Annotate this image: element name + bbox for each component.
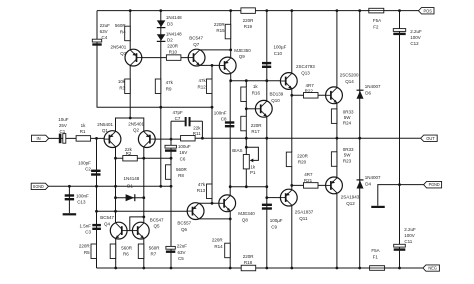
svg-text:C1: C1 (60, 129, 66, 134)
resistor R4 (125, 26, 131, 41)
wire: Q11 base lead row (267, 197, 281, 199)
transistor Q3 (125, 49, 142, 66)
label C3 value (79, 223, 91, 234)
svg-text:Q2: Q2 (133, 128, 140, 133)
svg-text:0R33: 0R33 (343, 109, 354, 114)
fuse F2 (369, 8, 384, 13)
label C9 value (270, 218, 283, 229)
terminal NEG (423, 265, 440, 271)
wire: R16-R17 junction segment (245, 101, 247, 116)
svg-text:1k: 1k (81, 123, 87, 128)
resistor R23 (331, 152, 337, 167)
transistor Q6 (187, 203, 204, 220)
svg-text:BC557: BC557 (177, 221, 191, 226)
svg-text:5W: 5W (344, 115, 352, 120)
svg-text:63V: 63V (100, 29, 108, 34)
wire: Q12 collector to rail (336, 194, 338, 268)
label P1 value (250, 165, 256, 175)
wire: Q14 emitter R24 R23 column to Q12 (336, 104, 338, 178)
svg-text:R23: R23 (343, 158, 352, 163)
label C7 value (173, 110, 184, 121)
resistor R22 (304, 93, 319, 99)
wire: C4 branch from rail down and bootstrap bus to R12 column (97, 11, 212, 108)
svg-text:Q9: Q9 (239, 54, 246, 59)
label R16 value (252, 84, 261, 95)
wire: P1 wiper loop (246, 147, 258, 160)
label Q12 part (341, 195, 360, 206)
terminal OUT (421, 135, 438, 141)
resistor R2 (123, 155, 138, 161)
label C12 value (410, 29, 422, 46)
svg-text:220R: 220R (297, 153, 309, 158)
wire: R12-R13 column (211, 65, 213, 203)
transistor Q1 (104, 131, 121, 148)
svg-text:R24: R24 (343, 121, 352, 126)
svg-text:F5A: F5A (371, 248, 379, 253)
svg-text:220R: 220R (243, 254, 255, 259)
svg-text:22uF: 22uF (177, 244, 188, 249)
label R2 value (125, 147, 133, 156)
svg-text:Q11: Q11 (299, 216, 308, 221)
svg-text:100nF: 100nF (214, 111, 227, 116)
svg-text:220R: 220R (214, 22, 226, 27)
svg-text:D1: D1 (127, 184, 133, 189)
svg-text:C10: C10 (274, 51, 283, 56)
svg-text:C11: C11 (404, 239, 412, 244)
label C11 value (404, 227, 416, 244)
svg-text:Q10: Q10 (271, 98, 280, 103)
transistor Q4 (110, 222, 127, 239)
wire: Q4 emitter to R6 and rail (115, 238, 117, 268)
svg-text:R11: R11 (193, 131, 201, 136)
transistor Q8 (219, 195, 236, 212)
label R7 value (149, 245, 161, 256)
svg-text:R2: R2 (126, 151, 132, 156)
svg-text:P1: P1 (250, 170, 256, 175)
svg-text:C12: C12 (410, 41, 419, 46)
label D2 value (166, 31, 182, 42)
capacitor C9 (262, 204, 272, 206)
svg-text:C9: C9 (271, 224, 277, 229)
transistor Q10 (255, 100, 272, 117)
svg-text:2SA1837: 2SA1837 (295, 209, 314, 214)
resistor R13 (207, 184, 213, 199)
wire: R22 row Q13 emitter to Q14 base (292, 94, 325, 96)
label Q6 part (177, 221, 191, 232)
svg-text:47pF: 47pF (173, 110, 184, 115)
svg-text:47k: 47k (166, 80, 174, 85)
svg-text:R19: R19 (244, 24, 253, 29)
resistor R10 (166, 55, 181, 61)
label C10 value (274, 45, 287, 56)
label R22 value (305, 83, 315, 94)
wire: negative bottom rail (97, 267, 423, 269)
wire: R16 top stub (245, 81, 247, 87)
transistor Q2 (138, 131, 155, 148)
svg-text:D6: D6 (365, 91, 371, 96)
wire: Q9 collector to VAS bus (230, 74, 232, 81)
transistor Q13 (280, 73, 297, 90)
label R18 value (243, 254, 255, 265)
svg-text:1k: 1k (253, 84, 259, 89)
capacitor C10 (262, 62, 271, 64)
svg-text:1N4007: 1N4007 (365, 84, 381, 89)
transistor Q14 (326, 87, 343, 104)
svg-text:C13: C13 (77, 199, 86, 204)
resistor R17 (241, 116, 247, 131)
svg-text:F5A: F5A (373, 18, 381, 23)
wire: Q11 emitter column to rail (291, 206, 293, 268)
capacitor C2 (91, 170, 100, 172)
wire: mirror base tie (127, 230, 132, 232)
svg-text:47k: 47k (199, 78, 207, 83)
label R21 value (304, 172, 313, 183)
svg-text:2.2uF: 2.2uF (404, 227, 416, 232)
label R12 value (198, 78, 207, 89)
wire: D4 column (359, 138, 361, 268)
transistor Q12 (326, 177, 343, 194)
svg-text:2N5401: 2N5401 (111, 45, 127, 50)
svg-text:1N4148: 1N4148 (166, 31, 182, 36)
svg-text:16V: 16V (179, 150, 187, 155)
label R15 value (214, 22, 226, 33)
diode D6 (357, 91, 364, 99)
ground symbol at C13 (63, 213, 77, 215)
svg-text:1N4148: 1N4148 (166, 15, 182, 20)
svg-text:2SC5200: 2SC5200 (340, 73, 359, 78)
wire: R15 column to Q9 emitter (230, 11, 232, 58)
svg-text:C6: C6 (180, 157, 186, 162)
resistor R20 (286, 152, 292, 167)
svg-text:100µF: 100µF (270, 218, 283, 223)
label R13 value (197, 182, 206, 193)
label Q4 part (100, 215, 114, 226)
wire: Q8 emitter / R14 column (229, 211, 231, 268)
wire: lower bias bus (230, 186, 267, 188)
capacitor C7 (185, 117, 187, 126)
resistor R18 (241, 265, 256, 271)
diode D3 (157, 20, 166, 27)
svg-text:R16: R16 (252, 90, 261, 95)
label D3 value (166, 15, 182, 26)
svg-text:100pF: 100pF (78, 161, 91, 166)
label R8 value (176, 167, 188, 178)
svg-text:C4: C4 (102, 35, 108, 40)
label Q14 part (340, 73, 359, 85)
label R11 value (193, 126, 201, 137)
resistor R24 (331, 109, 337, 124)
label C5 value (177, 244, 188, 262)
label Q8 part (238, 211, 255, 222)
svg-text:Q7: Q7 (193, 42, 200, 47)
svg-text:MJE350: MJE350 (234, 48, 251, 53)
wire: C13 branch (68, 186, 70, 213)
svg-text:4R7: 4R7 (304, 172, 313, 177)
svg-text:Q12: Q12 (346, 201, 355, 206)
label C6 value (178, 144, 191, 162)
wire: R17 to P1 segment (245, 131, 247, 155)
svg-text:220R: 220R (79, 244, 91, 249)
svg-text:NEG: NEG (428, 266, 437, 271)
svg-text:2N5401: 2N5401 (97, 122, 113, 127)
svg-text:Q3: Q3 (120, 51, 127, 56)
capacitor C3 (92, 224, 101, 226)
label R4 value (115, 23, 127, 34)
svg-text:R20: R20 (298, 160, 307, 165)
label R9 value (166, 80, 174, 91)
svg-text:R5: R5 (84, 250, 90, 255)
wire: mirror base tie jog to Q5 collector (130, 217, 144, 231)
wire: Q7 collector to R15 bottom node (200, 49, 231, 51)
wire: input node / C2 / C3 / R5 column (96, 138, 98, 268)
svg-text:F1: F1 (373, 255, 379, 260)
svg-text:Q13: Q13 (301, 71, 310, 76)
trimmer P1 (243, 155, 249, 169)
label Q13 part (296, 64, 315, 75)
wire: R2 feedback row (116, 157, 172, 159)
svg-text:Q14: Q14 (345, 79, 354, 84)
svg-text:2.2uF: 2.2uF (410, 29, 422, 34)
resistor R19 (241, 8, 256, 14)
svg-text:PGND: PGND (429, 182, 440, 187)
label R5 value (79, 244, 91, 255)
svg-text:0R33: 0R33 (343, 147, 354, 152)
svg-text:Q5: Q5 (154, 224, 161, 229)
wire: R20 bottom to Q11 collector node (291, 167, 293, 190)
label C8 value (214, 111, 227, 122)
wire: C7 left branch down to base row (170, 121, 172, 139)
label D4 value (365, 175, 381, 186)
label Q10 part (270, 92, 284, 103)
svg-text:D2: D2 (167, 38, 173, 43)
svg-text:R13: R13 (197, 188, 206, 193)
capacitor C1 (59, 134, 62, 144)
label R20 value (297, 153, 309, 164)
label Q1 part (97, 122, 113, 133)
label R17 value (251, 123, 263, 134)
label D6 value (365, 84, 381, 95)
svg-text:220R: 220R (212, 238, 224, 243)
svg-text:R9: R9 (166, 86, 172, 91)
capacitor C8 (225, 121, 234, 123)
diode D2 (157, 34, 166, 41)
svg-text:220R: 220R (243, 18, 255, 23)
svg-text:R12: R12 (198, 84, 207, 89)
svg-text:D3: D3 (167, 22, 173, 27)
capacitor C12 (393, 29, 405, 32)
transistor Q11 (280, 189, 297, 206)
wire: signal ground bus (48, 185, 171, 187)
label Q9 part (234, 48, 251, 59)
svg-text:63V: 63V (178, 250, 186, 255)
svg-text:10uF: 10uF (58, 117, 69, 122)
terminal PGND (424, 181, 442, 188)
svg-text:2N5401: 2N5401 (128, 121, 144, 126)
svg-text:560R: 560R (121, 245, 133, 250)
svg-text:R10: R10 (169, 50, 178, 55)
wire: D6 column (359, 11, 361, 139)
wire: output rail (195, 137, 421, 139)
svg-text:220R: 220R (167, 44, 179, 49)
label Q11 part (295, 209, 314, 220)
label R6 value (121, 245, 133, 256)
wire: Q6 emitter to Q8 base (199, 202, 219, 204)
wire: D1 row (116, 197, 144, 199)
svg-text:C5: C5 (178, 256, 184, 261)
resistor R12 (207, 79, 213, 94)
label R14 value (212, 238, 224, 249)
wire: R4-Q3-R3 column (129, 11, 131, 118)
capacitor C11 (394, 244, 406, 247)
svg-text:IN: IN (37, 136, 41, 141)
wire: Q10 base lead (246, 108, 255, 110)
wire: C7 right plate wire (191, 120, 203, 122)
svg-text:560R: 560R (149, 245, 161, 250)
wire: Q2 collector to Q5 column (143, 148, 145, 223)
resistor R6 (110, 244, 116, 259)
label R23 value (343, 147, 354, 163)
label D1 value (124, 176, 140, 189)
wire: diff pair tail (116, 118, 144, 132)
svg-text:2SA1943: 2SA1943 (341, 195, 360, 200)
label R19 value (243, 18, 255, 29)
resistor R8 (166, 165, 172, 180)
resistor R11 (181, 135, 196, 141)
svg-text:R8: R8 (178, 173, 184, 178)
resistor R14 (225, 243, 231, 258)
svg-text:OUT: OUT (426, 136, 435, 141)
svg-text:22k: 22k (193, 126, 201, 131)
wire: C6-R8-C5 column (170, 139, 172, 268)
capacitor C13 (65, 194, 74, 196)
svg-text:R15: R15 (216, 28, 225, 33)
wire: Q13 emitter to R20 (291, 89, 293, 152)
label R10 value (167, 44, 179, 55)
svg-text:R21: R21 (304, 178, 313, 183)
wire: VAS output bus to Q13 base (230, 80, 280, 82)
svg-text:MJE340: MJE340 (238, 211, 255, 216)
resistor R7 (138, 244, 144, 259)
wire: C8 column from VAS bus to Q8 collector (229, 81, 231, 196)
svg-text:POS: POS (424, 8, 433, 13)
svg-text:560R: 560R (115, 23, 127, 28)
wire: Q3 base row to Q7 base (142, 57, 189, 59)
ground symbol at PGND (371, 206, 385, 208)
label R24 value (343, 109, 354, 125)
diode D4 (357, 181, 364, 189)
wire: Q6 collector to Q8 emitter node (199, 218, 231, 220)
capacitor C4 (92, 39, 101, 42)
transistor Q7 (188, 49, 205, 66)
wire: C12-C11 column (399, 11, 401, 268)
wire: input row (49, 137, 105, 139)
svg-text:1N4007: 1N4007 (365, 175, 381, 180)
svg-text:BIAS: BIAS (232, 148, 242, 153)
transistor Q5 (132, 222, 149, 239)
resistor R9 (155, 79, 161, 94)
svg-text:BD139: BD139 (270, 92, 284, 97)
svg-text:560R: 560R (176, 167, 188, 172)
svg-text:C8: C8 (221, 117, 227, 122)
label C1 value (58, 117, 69, 134)
svg-text:100uF: 100uF (178, 144, 191, 149)
wire: Q7 emitter to Q9 base (200, 64, 220, 66)
svg-text:220R: 220R (251, 123, 263, 128)
svg-text:R18: R18 (244, 260, 253, 265)
svg-text:10k: 10k (118, 79, 126, 84)
label Q3 part (111, 45, 127, 56)
svg-text:4R7: 4R7 (306, 83, 315, 88)
wire: PGND wire and chassis drop (378, 185, 424, 206)
label BIAS (232, 148, 242, 153)
label F2 value (373, 18, 381, 29)
svg-text:2SC4793: 2SC4793 (296, 64, 315, 69)
wire: D3-D2-R9 column down to signal ground bus (160, 11, 162, 187)
resistor R3 (125, 79, 131, 94)
svg-text:R3: R3 (119, 86, 125, 91)
svg-text:R1: R1 (80, 129, 86, 134)
svg-text:Q6: Q6 (181, 227, 188, 232)
label C13 value (76, 194, 89, 205)
wire: positive top rail (97, 10, 419, 12)
svg-text:100nF: 100nF (76, 194, 89, 199)
svg-text:R6: R6 (123, 252, 129, 257)
svg-text:Q4: Q4 (104, 221, 111, 226)
svg-text:Q1: Q1 (102, 128, 109, 133)
terminal POS (419, 8, 435, 14)
label C4 value (100, 23, 111, 40)
wire: Q1 collector / current mirror column (115, 148, 117, 223)
svg-text:100V: 100V (410, 35, 421, 40)
capacitor C5 (166, 246, 175, 249)
svg-text:5W: 5W (344, 153, 352, 158)
svg-text:25V: 25V (59, 123, 67, 128)
wire: R21 row to Q12 base (292, 184, 326, 186)
wire: Q14 collector column (336, 11, 338, 87)
fuse F1 (370, 266, 385, 271)
svg-text:47k: 47k (198, 182, 206, 187)
svg-text:BC547: BC547 (100, 215, 114, 220)
wire: Q13 collector column (291, 11, 293, 73)
label Q5 part (150, 217, 164, 228)
svg-text:R7: R7 (151, 252, 157, 257)
wire: C10 / Q10 / C9 column (266, 11, 268, 268)
label Q7 part (189, 36, 203, 47)
svg-text:100V: 100V (404, 233, 415, 238)
resistor R15 (225, 24, 231, 39)
wire: Q6 base row from C3 node (97, 210, 188, 212)
svg-text:R17: R17 (251, 129, 260, 134)
resistor R1 (76, 136, 91, 142)
svg-text:R4: R4 (120, 29, 126, 34)
svg-text:22uF: 22uF (100, 23, 111, 28)
label R1 value (80, 123, 86, 134)
transistor Q9 (219, 57, 236, 74)
terminal IN (32, 135, 49, 141)
svg-text:C7: C7 (175, 116, 181, 121)
svg-text:1N4148: 1N4148 (124, 176, 140, 181)
svg-text:1.5nF: 1.5nF (79, 223, 91, 228)
svg-text:R14: R14 (214, 244, 223, 249)
svg-text:Q8: Q8 (242, 217, 249, 222)
resistor R5 (91, 244, 97, 259)
wire: Q5 emitter to R7 and rail (143, 238, 145, 268)
svg-text:C3: C3 (85, 230, 91, 235)
resistor R21 (304, 183, 319, 189)
label F1 value (371, 248, 379, 259)
svg-text:C2: C2 (85, 167, 91, 172)
svg-text:SGND: SGND (33, 184, 44, 189)
